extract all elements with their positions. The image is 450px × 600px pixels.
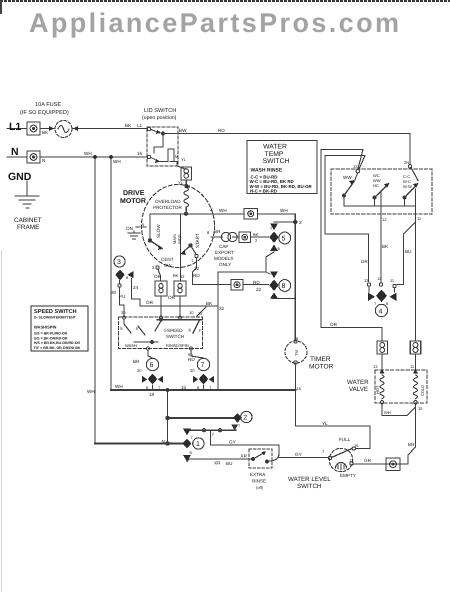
svg-text:RD: RD <box>253 280 260 285</box>
svg-text:N: N <box>11 146 19 158</box>
svg-text:RD: RD <box>218 128 225 133</box>
svg-text:BR: BR <box>133 359 140 364</box>
svg-text:BK: BK <box>206 301 213 306</box>
svg-text:M: M <box>187 184 190 189</box>
svg-text:AppliancePartsPros.com: AppliancePartsPros.com <box>29 8 399 38</box>
svg-text:12: 12 <box>382 217 387 222</box>
svg-text:HOT: HOT <box>375 385 380 394</box>
svg-text:START: START <box>195 233 200 248</box>
svg-text:SWITCH: SWITCH <box>263 158 290 165</box>
svg-text:WASH: WASH <box>125 343 137 348</box>
svg-text:12: 12 <box>180 274 185 279</box>
svg-text:WH: WH <box>113 159 121 164</box>
svg-text:13: 13 <box>349 458 354 463</box>
svg-text:BK: BK <box>125 123 132 128</box>
svg-text:L1: L1 <box>137 123 143 128</box>
svg-text:5: 5 <box>282 236 286 243</box>
svg-text:24: 24 <box>133 285 139 290</box>
svg-text:2: 2 <box>243 415 247 422</box>
svg-text:HC: HC <box>373 183 379 188</box>
svg-text:TIMER: TIMER <box>310 356 331 363</box>
svg-text:D- SLOW/INTERMITTENT: D- SLOW/INTERMITTENT <box>34 316 77 320</box>
svg-text:S/S = BR-PU/RD-OR: S/S = BR-PU/RD-OR <box>34 332 68 336</box>
svg-text:EXTRA: EXTRA <box>250 472 266 477</box>
svg-text:16: 16 <box>297 386 302 391</box>
svg-text:13: 13 <box>373 364 378 369</box>
svg-text:BW: BW <box>179 128 187 133</box>
svg-text:15: 15 <box>181 385 187 390</box>
svg-text:7: 7 <box>201 362 205 369</box>
svg-text:22: 22 <box>256 287 262 292</box>
svg-text:WH: WH <box>219 208 227 213</box>
svg-text:FRAME: FRAME <box>17 224 39 231</box>
svg-text:WW: WW <box>343 175 352 180</box>
svg-text:8: 8 <box>282 283 286 290</box>
svg-text:OVERLOAD: OVERLOAD <box>155 199 181 204</box>
svg-text:BR: BR <box>408 442 415 447</box>
svg-text:1: 1 <box>196 441 200 448</box>
svg-text:WATER: WATER <box>347 379 369 386</box>
svg-text:F/F = BR-BK, OR-OR/RD-BK: F/F = BR-BK, OR-OR/RD-BK <box>34 346 81 350</box>
svg-text:GND: GND <box>8 171 32 183</box>
svg-text:4: 4 <box>379 309 383 316</box>
svg-text:E: E <box>136 326 139 331</box>
svg-text:SPEED: SPEED <box>167 328 183 333</box>
svg-text:GY: GY <box>229 440 236 445</box>
svg-text:CAP: CAP <box>219 244 228 249</box>
svg-text:W-W: W-W <box>403 184 412 189</box>
svg-text:SW: SW <box>164 263 172 268</box>
svg-text:BU: BU <box>405 249 411 254</box>
svg-text:22: 22 <box>194 266 200 271</box>
svg-text:30: 30 <box>111 290 117 295</box>
svg-text:H-C = BK-RD: H-C = BK-RD <box>250 188 277 193</box>
svg-text:BK: BK <box>382 244 389 249</box>
svg-text:ON: ON <box>126 226 133 231</box>
svg-text:30: 30 <box>137 368 142 373</box>
svg-text:WDG: WDG <box>177 234 182 244</box>
svg-text:10: 10 <box>189 310 194 315</box>
svg-text:S/S = BK-OR/RD-OR: S/S = BK-OR/RD-OR <box>34 336 68 340</box>
svg-text:16: 16 <box>354 443 359 448</box>
svg-text:WH: WH <box>84 151 92 156</box>
svg-text:H/S = BR-BK,BU-OR/RD-OR: H/S = BR-BK,BU-OR/RD-OR <box>34 341 80 345</box>
svg-text:RINSE/SPIN: RINSE/SPIN <box>166 343 189 348</box>
svg-text:15: 15 <box>418 406 423 411</box>
svg-text:CABINET: CABINET <box>14 217 42 224</box>
svg-text:BR: BR <box>214 229 221 234</box>
svg-text:SPEED SWITCH: SPEED SWITCH <box>34 309 77 315</box>
svg-text:3: 3 <box>299 220 302 225</box>
svg-text:SLOW: SLOW <box>156 224 161 238</box>
svg-text:YL: YL <box>181 157 187 162</box>
svg-text:13: 13 <box>364 278 369 283</box>
svg-text:MOTOR: MOTOR <box>120 198 146 205</box>
svg-text:OR: OR <box>154 274 162 279</box>
svg-text:TM: TM <box>294 350 299 356</box>
svg-text:12: 12 <box>377 276 382 281</box>
svg-text:CENT: CENT <box>161 257 174 262</box>
svg-text:WH: WH <box>280 208 288 213</box>
svg-text:2N: 2N <box>404 160 409 165</box>
svg-text:PROTECTOR: PROTECTOR <box>153 205 182 210</box>
svg-text:VALVE: VALVE <box>349 386 368 393</box>
svg-text:DRIVE: DRIVE <box>123 190 145 197</box>
svg-text:BK: BK <box>42 130 49 135</box>
svg-text:EXPORT: EXPORT <box>215 250 234 255</box>
svg-text:6: 6 <box>150 362 154 369</box>
svg-text:3: 3 <box>117 259 121 266</box>
svg-text:(IF SO EQUIPPED): (IF SO EQUIPPED) <box>20 109 69 116</box>
svg-text:WASH/SPIN: WASH/SPIN <box>34 325 57 330</box>
svg-text:SWITCH: SWITCH <box>166 334 184 339</box>
svg-text:GY: GY <box>295 452 302 457</box>
svg-text:SWITCH: SWITCH <box>297 483 321 490</box>
svg-text:WH: WH <box>115 384 123 389</box>
svg-text:BK: BK <box>253 232 259 237</box>
svg-text:COLD: COLD <box>420 385 425 396</box>
svg-text:YL: YL <box>322 421 328 426</box>
svg-text:32: 32 <box>219 306 225 311</box>
svg-text:S: S <box>120 326 123 331</box>
svg-text:(open position): (open position) <box>142 115 177 121</box>
svg-text:N: N <box>42 158 45 163</box>
svg-text:13: 13 <box>353 164 358 169</box>
svg-text:OR: OR <box>146 300 154 305</box>
svg-text:MODELS: MODELS <box>214 256 233 261</box>
svg-text:WATER LEVEL: WATER LEVEL <box>288 476 331 483</box>
svg-text:10A FUSE: 10A FUSE <box>35 102 61 108</box>
svg-text:XR: XR <box>214 461 221 466</box>
svg-text:DR: DR <box>361 259 368 264</box>
svg-text:LID SWITCH: LID SWITCH <box>144 108 176 114</box>
svg-text:RINSE: RINSE <box>252 479 266 484</box>
svg-text:30: 30 <box>121 310 126 315</box>
svg-text:BK: BK <box>173 273 179 278</box>
svg-text:M: M <box>175 154 178 159</box>
svg-text:WH: WH <box>87 389 95 394</box>
svg-text:EMPTY: EMPTY <box>340 473 356 478</box>
svg-text:WASH RINSE: WASH RINSE <box>251 167 283 173</box>
svg-text:(off): (off) <box>256 485 264 490</box>
svg-text:OR: OR <box>168 295 176 300</box>
svg-text:L1: L1 <box>9 121 21 133</box>
svg-text:GR: GR <box>364 458 372 463</box>
svg-text:22: 22 <box>198 311 203 316</box>
svg-text:OR: OR <box>330 322 338 327</box>
svg-text:18: 18 <box>149 392 155 397</box>
svg-text:16: 16 <box>137 151 143 156</box>
svg-text:FULL: FULL <box>339 437 351 442</box>
svg-text:RD: RD <box>193 273 200 278</box>
svg-text:PU: PU <box>119 294 125 299</box>
svg-text:ONLY: ONLY <box>219 262 231 267</box>
svg-text:WH: WH <box>384 410 391 415</box>
svg-text:N: N <box>162 439 165 444</box>
svg-text:RD: RD <box>188 357 195 362</box>
svg-text:2: 2 <box>210 207 213 212</box>
svg-text:XR: XR <box>241 454 248 459</box>
svg-text:WATER: WATER <box>263 144 287 151</box>
svg-text:MOTOR: MOTOR <box>309 364 334 371</box>
svg-text:7: 7 <box>212 432 215 437</box>
svg-text:BU: BU <box>226 461 232 466</box>
svg-text:TEMP: TEMP <box>265 151 284 158</box>
svg-text:YL: YL <box>178 180 184 185</box>
svg-text:30: 30 <box>190 368 195 373</box>
